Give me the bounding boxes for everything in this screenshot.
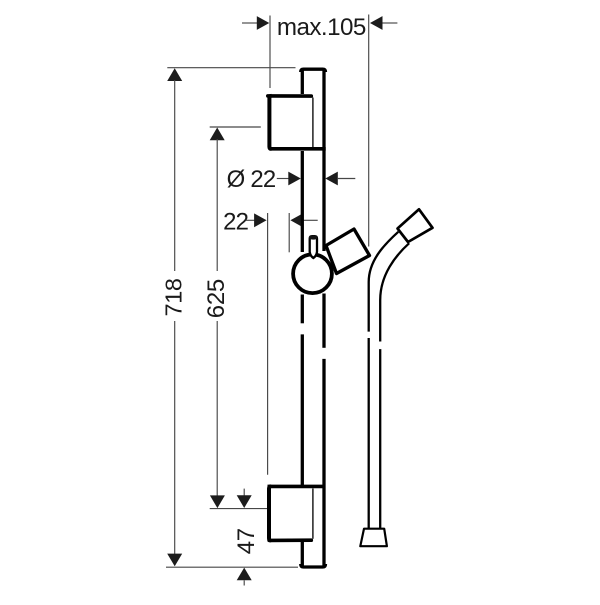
lower wall support right thin edge: [312, 489, 314, 539]
wall bar left edge segment 4 (below break): [301, 334, 304, 487]
dimension max.105 right extension line: [368, 15, 370, 247]
wall bar right edge segment 3 (below break): [322, 359, 325, 566]
shower hose inner curve: [380, 243, 409, 341]
upper wall support bottom edge: [270, 147, 326, 151]
upper wall support right thin edge: [312, 98, 314, 148]
dimension 22 right arrowhead: [290, 213, 303, 227]
hose top connector: [398, 209, 433, 242]
svg-text:718: 718: [161, 278, 187, 316]
dimension max.105 left extension line: [269, 16, 271, 89]
wall bar left edge segment 5: [301, 540, 304, 565]
svg-text:625: 625: [203, 279, 230, 318]
dimension 718 top extension line: [167, 67, 295, 69]
dimension max.105 left stub: [242, 22, 257, 24]
shower hose outer line lower segment: [368, 338, 370, 528]
dimension 718 line lower segment: [174, 321, 176, 555]
wall bar right edge segment 1: [322, 71, 325, 252]
dimension 718 / 47 bottom extension line: [166, 566, 298, 568]
dimension 47 bottom stub: [243, 580, 245, 585]
dimension 718 bottom arrowhead: [167, 554, 182, 567]
dimension dia 22 right stub: [338, 178, 356, 180]
upper wall support cover fill: [267, 94, 313, 151]
slider knob circle: [293, 254, 332, 293]
slider pin body: [310, 236, 317, 258]
svg-text:max.105: max.105: [277, 14, 366, 41]
dimension 625 top extension line: [210, 126, 261, 128]
svg-text:Ø 22: Ø 22: [227, 166, 276, 193]
dimension 22 right extension line: [288, 213, 290, 252]
lower wall support cover fill: [267, 488, 313, 538]
wall bar bottom edge: [301, 564, 326, 567]
dimension dia 22 right arrowhead: [325, 172, 338, 186]
dimension 47 top stub: [243, 489, 245, 497]
lower wall support top edge: [268, 485, 326, 489]
dimension 625 line lower segment: [216, 321, 218, 496]
dimension 625 top arrowhead: [210, 128, 225, 141]
dimension 625 bottom arrowhead: [210, 495, 225, 508]
wall bar left edge segment 3 (below knob, above break): [301, 295, 304, 324]
dimension 22 left extension line: [267, 213, 269, 475]
dimension 718 top arrowhead: [167, 68, 182, 81]
dimension dia 22 left stub: [277, 178, 289, 180]
svg-text:22: 22: [223, 209, 249, 236]
dimension 47 bottom arrowhead: [237, 568, 252, 581]
wall bar fill: [301, 68, 326, 569]
lower wall support fill: [267, 485, 313, 542]
upper wall support fill: [267, 94, 313, 151]
shower hose inner line lower segment: [379, 349, 381, 528]
dimension max.105 right stub: [383, 22, 398, 24]
slider pin dark cap: [309, 235, 318, 239]
dimension 22 right stub: [303, 219, 318, 221]
dimension 625 line upper segment: [216, 139, 218, 271]
upper wall support top edge: [268, 94, 312, 98]
dimension 47 top arrowhead: [237, 495, 252, 508]
dimension 22 left stub: [246, 219, 255, 221]
dimension 718 line upper segment: [174, 80, 176, 271]
dimension 22 left arrowhead: [254, 213, 267, 227]
wall bar right edge segment 2 (below knob, above break): [322, 294, 325, 348]
dimension max.105 right arrowhead: [370, 16, 383, 30]
upper wall support left edge: [269, 96, 271, 149]
lower wall support bottom edge: [269, 538, 311, 542]
hose end nut: [360, 529, 387, 547]
handset holder cone: [326, 229, 370, 274]
svg-text:47: 47: [233, 528, 260, 554]
dimension 625 / 47 shared extension line: [210, 508, 269, 510]
wall bar left edge segment 2: [301, 149, 304, 252]
dimension dia 22 left arrowhead: [288, 172, 301, 186]
shower hose outer curve: [369, 232, 399, 332]
dimension max.105 left arrowhead: [257, 16, 270, 30]
wall bar top edge: [301, 69, 326, 72]
wall bar left edge segment 1: [301, 71, 304, 98]
lower wall support left edge: [269, 486, 271, 540]
